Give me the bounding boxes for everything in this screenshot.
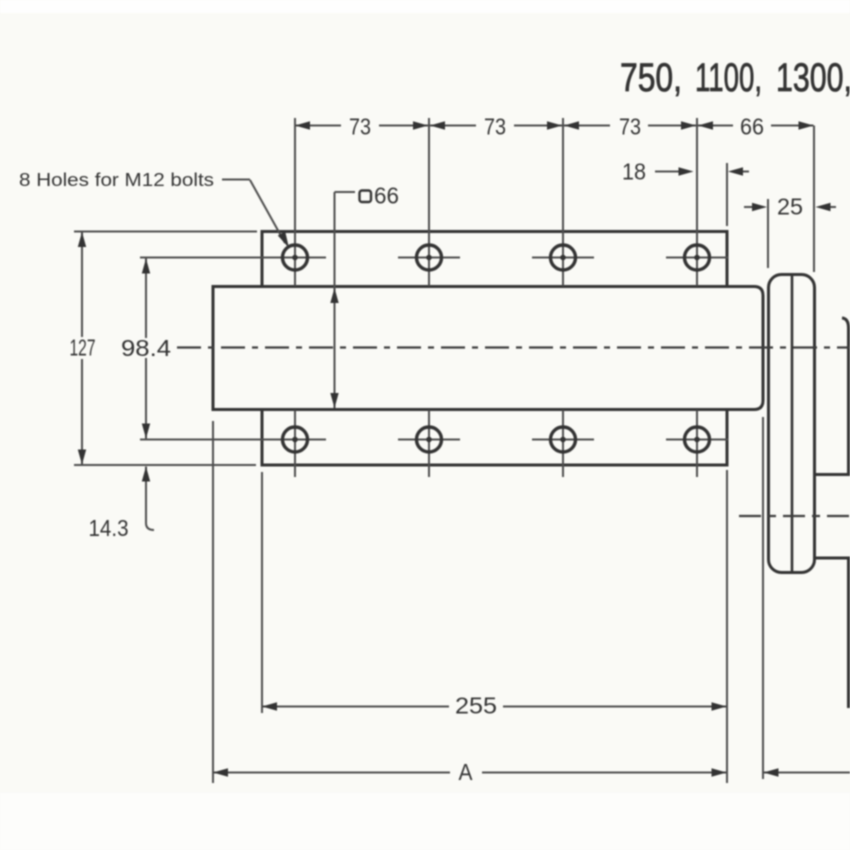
14.3: [142, 467, 150, 482]
bottom hole vertical axes: [295, 410, 697, 477]
dia 66 dimension: [335, 192, 356, 408]
main centerline: [177, 346, 850, 348]
svg-text:73: 73: [349, 114, 371, 140]
svg-text:73: 73: [484, 114, 506, 140]
svg-text:A: A: [459, 759, 474, 785]
svg-text:25: 25: [777, 194, 803, 220]
hub centerline: [739, 515, 850, 517]
right stub dimension: [764, 772, 850, 774]
14.3 dimension: [146, 467, 154, 531]
top flange: [262, 232, 727, 288]
svg-text:73: 73: [619, 114, 641, 140]
svg-text:255: 255: [455, 693, 497, 719]
top chain: [295, 121, 310, 129]
18 dimension: [655, 171, 749, 173]
svg-text:750,: 750,: [620, 56, 682, 100]
disc seam: [791, 276, 794, 571]
top hole vertical axes (also dim extension lines): [295, 118, 697, 286]
255: [262, 702, 277, 710]
bottom 255 dimension: [262, 706, 727, 708]
bottom row horizontal axis: [140, 439, 326, 441]
svg-text:66: 66: [374, 183, 399, 209]
right-side housing (cut by frame): [842, 318, 849, 475]
98.4: [142, 259, 150, 274]
svg-text:1100,: 1100,: [695, 56, 762, 100]
svg-text:127: 127: [70, 335, 96, 361]
25 dimension: [744, 206, 836, 208]
top row horizontal axis: [140, 257, 326, 259]
127: [78, 232, 86, 247]
main body (shaft housing): [213, 287, 763, 410]
leader: [278, 232, 289, 249]
holes top row: [283, 245, 308, 270]
dia 66 label: [360, 191, 372, 203]
dia66: [330, 288, 338, 303]
svg-text:18: 18: [622, 159, 646, 185]
end disc: [769, 275, 815, 573]
A: [213, 768, 228, 776]
svg-text:1300,: 1300,: [776, 56, 850, 100]
25: [752, 203, 767, 211]
svg-text:98.4: 98.4: [121, 335, 171, 361]
bottom A dimension: [213, 772, 727, 774]
bottom flange: [262, 410, 727, 466]
stub: [764, 768, 779, 776]
left 98.4 dimension: [145, 259, 147, 439]
svg-text:8 Holes for M12 bolts: 8 Holes for M12 bolts: [19, 170, 214, 190]
holes bottom row: [283, 427, 308, 452]
left 127 dimension: [81, 232, 83, 465]
18: [679, 167, 694, 175]
leader line for note: [222, 180, 285, 244]
svg-text:66: 66: [740, 114, 764, 140]
svg-text:14.3: 14.3: [89, 515, 129, 541]
